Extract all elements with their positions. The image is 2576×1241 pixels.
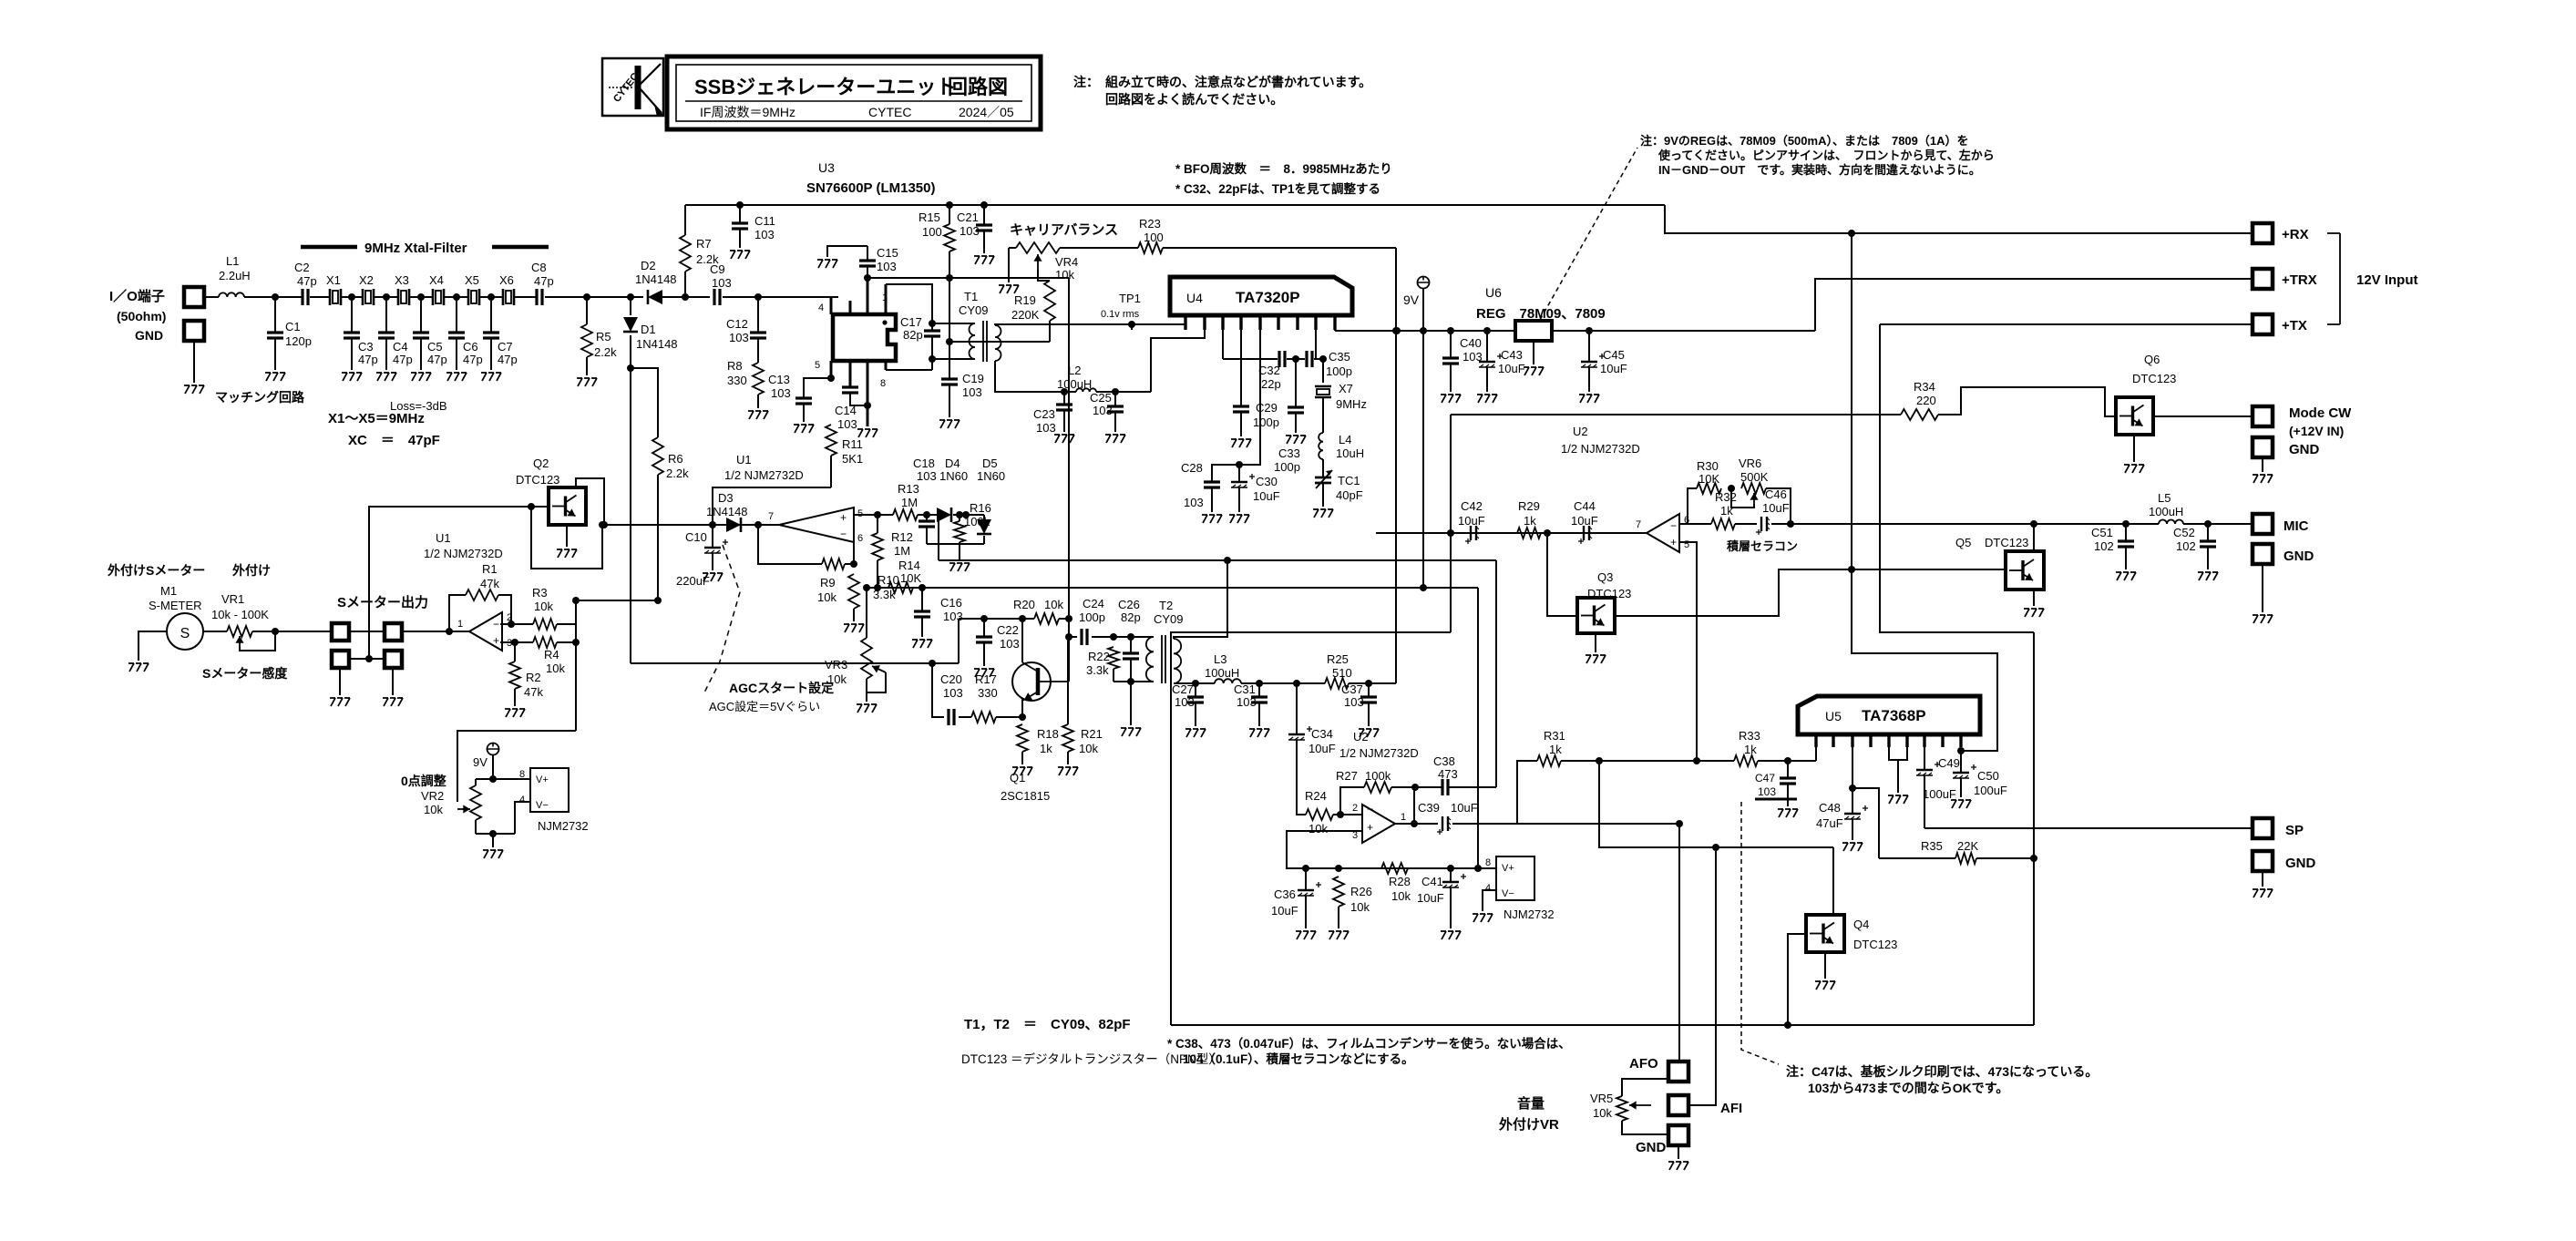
wire TX net down bbox=[2033, 632, 2035, 1025]
svg-text:100uF: 100uF bbox=[1923, 787, 1956, 801]
svg-text:100: 100 bbox=[922, 225, 942, 239]
svg-text:10k: 10k bbox=[546, 662, 565, 675]
wire AFO feed bbox=[1678, 824, 1680, 1062]
svg-text:C11: C11 bbox=[754, 214, 775, 228]
svg-text:47p: 47p bbox=[393, 353, 413, 366]
wire bus step to +RX bbox=[1665, 205, 2253, 237]
svg-text:DTC123: DTC123 bbox=[2132, 372, 2176, 385]
svg-text:マッチング回路: マッチング回路 bbox=[215, 390, 305, 405]
svg-text:8: 8 bbox=[1485, 857, 1491, 868]
ground C37 bbox=[1359, 729, 1379, 737]
ground VR3 bbox=[857, 704, 877, 713]
ground C10 bbox=[703, 573, 723, 581]
svg-text:103: 103 bbox=[1093, 404, 1113, 417]
IC U3 SN76600P bbox=[833, 314, 896, 361]
svg-text:U5: U5 bbox=[1825, 709, 1842, 723]
ground R5 bbox=[577, 378, 597, 386]
label U1 smeter bbox=[424, 531, 503, 560]
wire Q3 emitter bbox=[1595, 633, 1596, 652]
svg-text:TA7320P: TA7320P bbox=[1236, 289, 1300, 306]
ground R10 bbox=[844, 624, 864, 632]
terminal Mode CW bbox=[2253, 405, 2352, 438]
svg-text:C25: C25 bbox=[1090, 391, 1112, 405]
U3 pin labels bbox=[815, 292, 888, 389]
svg-text:103: 103 bbox=[943, 686, 963, 700]
svg-text:10k: 10k bbox=[1391, 889, 1411, 903]
wire y728 line bbox=[631, 660, 959, 667]
diode D5 bbox=[977, 456, 1005, 544]
svg-text:103: 103 bbox=[771, 386, 791, 400]
ground I/O bbox=[184, 385, 204, 394]
wire TP1 line bbox=[1131, 324, 1133, 330]
svg-text:R19: R19 bbox=[1014, 293, 1036, 307]
wire Q6 emitter bbox=[2133, 435, 2135, 462]
wire Q5 emitter bbox=[2033, 590, 2035, 606]
svg-text:2.2k: 2.2k bbox=[594, 345, 617, 359]
svg-text:10uF: 10uF bbox=[1762, 501, 1790, 515]
capacitor C12 bbox=[726, 297, 766, 363]
trimmer TC1 bbox=[1315, 459, 1363, 507]
svg-text:R21: R21 bbox=[1081, 727, 1103, 741]
wire Q2 base net bbox=[369, 503, 602, 659]
label zero adj bbox=[401, 774, 447, 816]
label U3 bbox=[806, 160, 935, 196]
inductor L3 bbox=[1205, 652, 1241, 683]
transistor Q1 2SC1815 bbox=[1012, 662, 1068, 701]
svg-text:103: 103 bbox=[837, 417, 857, 431]
svg-text:22K: 22K bbox=[1957, 839, 1978, 853]
wire Q1 base right bbox=[1067, 637, 1069, 724]
ground C47 bbox=[1778, 809, 1798, 817]
ground C5 bbox=[411, 373, 431, 381]
resistor R20 bbox=[1013, 598, 1069, 624]
svg-text:100p: 100p bbox=[1326, 364, 1352, 378]
capacitor C4 bbox=[378, 293, 413, 370]
svg-text:Sメーター出力: Sメーター出力 bbox=[337, 594, 428, 610]
wire T1 secondary tap bbox=[949, 341, 995, 343]
svg-text:100p: 100p bbox=[1274, 460, 1300, 474]
capacitor C6 bbox=[448, 293, 483, 370]
svg-text:V+: V+ bbox=[536, 774, 549, 785]
svg-text:L4: L4 bbox=[1339, 433, 1351, 446]
svg-text:R16: R16 bbox=[970, 501, 991, 515]
resistor R10 bbox=[848, 573, 899, 621]
note top bbox=[1073, 75, 1371, 107]
transistor Q6 DTC123 bbox=[2116, 397, 2153, 435]
ground C26 rail bbox=[1121, 728, 1141, 736]
svg-text:82p: 82p bbox=[903, 328, 923, 342]
ground C6 bbox=[446, 373, 467, 381]
ground C36 bbox=[1296, 931, 1316, 939]
opamp U1 smeter bbox=[457, 612, 512, 651]
label U5 bbox=[1825, 707, 1926, 724]
svg-text:D2: D2 bbox=[641, 259, 656, 272]
inductor L2 bbox=[1057, 364, 1096, 392]
svg-text:473: 473 bbox=[1438, 767, 1458, 781]
svg-text:10K: 10K bbox=[1699, 472, 1719, 486]
svg-text:I／O端子: I／O端子 bbox=[109, 288, 165, 304]
svg-text:1k: 1k bbox=[1744, 743, 1757, 756]
svg-text:C6: C6 bbox=[463, 340, 478, 354]
svg-text:47p: 47p bbox=[498, 353, 518, 366]
capacitor C51 bbox=[2091, 524, 2134, 569]
ground TC1 bbox=[1313, 509, 1333, 518]
svg-text:X1: X1 bbox=[326, 273, 341, 287]
svg-text:1N60: 1N60 bbox=[977, 469, 1005, 483]
resistor R4 bbox=[533, 637, 576, 675]
label U2 audio bbox=[1339, 730, 1419, 760]
svg-text:C47: C47 bbox=[1755, 772, 1775, 785]
resistor R17 bbox=[959, 672, 1022, 723]
ground C52 bbox=[2198, 572, 2218, 580]
wire AGC to smeter y659 bbox=[572, 597, 662, 604]
svg-text:C18: C18 bbox=[913, 456, 935, 470]
svg-text:Q6: Q6 bbox=[2144, 353, 2160, 366]
capacitor C24 bbox=[1069, 597, 1154, 645]
svg-text:4: 4 bbox=[818, 303, 824, 313]
label volume bbox=[1498, 1095, 1559, 1133]
svg-text:(50ohm): (50ohm) bbox=[117, 309, 166, 323]
wire x1592 vertical bbox=[1450, 415, 1452, 632]
svg-text:TA7368P: TA7368P bbox=[1862, 707, 1926, 724]
svg-text:注： 組み立て時の、注意点などが書かれています。: 注： 組み立て時の、注意点などが書かれています。 bbox=[1073, 75, 1371, 89]
svg-text:103: 103 bbox=[754, 228, 775, 241]
svg-text:GND: GND bbox=[2289, 442, 2320, 457]
ground Q6 bbox=[2124, 465, 2144, 473]
svg-text:Sメーター感度: Sメーター感度 bbox=[202, 666, 288, 681]
svg-text:10k: 10k bbox=[817, 590, 836, 604]
svg-text:* C32、22pFは、TP1を見て調整する: * C32、22pFは、TP1を見て調整する bbox=[1175, 181, 1380, 196]
wire bias rail y953 bbox=[1302, 865, 1496, 872]
svg-text:C50: C50 bbox=[1977, 769, 1999, 783]
svg-text:AFO: AFO bbox=[1629, 1056, 1658, 1072]
svg-text:T2: T2 bbox=[1159, 599, 1173, 612]
svg-text:47p: 47p bbox=[463, 353, 483, 366]
wire y679 corner bbox=[958, 619, 960, 663]
svg-text:C51: C51 bbox=[2091, 526, 2113, 539]
svg-text:10uF: 10uF bbox=[1600, 362, 1627, 375]
ground U5 pins56 bbox=[1888, 795, 1908, 804]
svg-text:47uF: 47uF bbox=[1816, 816, 1843, 830]
svg-text:MIC: MIC bbox=[2284, 518, 2309, 534]
svg-text:R34: R34 bbox=[1914, 380, 1935, 394]
svg-text:C49: C49 bbox=[1938, 756, 1960, 770]
wire pin2 line bbox=[500, 620, 533, 628]
capacitor C42 bbox=[1458, 499, 1485, 544]
resistor R33 bbox=[1734, 729, 1816, 766]
resistor R35 bbox=[1879, 839, 2037, 864]
title text bbox=[685, 76, 1022, 119]
capacitor C21 bbox=[957, 205, 992, 253]
wire U4 pin5 to C28 bbox=[1212, 315, 1260, 482]
ground VR4 bbox=[999, 285, 1019, 293]
wire main line left bbox=[204, 296, 219, 298]
capacitor C15 bbox=[859, 246, 898, 273]
svg-text:100uH: 100uH bbox=[2149, 505, 2183, 518]
svg-text:Mode CW: Mode CW bbox=[2289, 405, 2352, 421]
wire D2 to C9 bbox=[660, 293, 710, 301]
wire AFgnd bbox=[1678, 1145, 1679, 1159]
svg-text:2: 2 bbox=[1352, 803, 1358, 814]
wire top bus bbox=[685, 201, 1665, 209]
capacitor C19 bbox=[941, 372, 984, 417]
capacitor C17 bbox=[886, 284, 940, 370]
note BFO bbox=[1175, 161, 1392, 176]
diode D3 bbox=[706, 491, 748, 532]
svg-text:103から473までの間ならOKです。: 103から473までの間ならOKです。 bbox=[1808, 1081, 2008, 1095]
ground C31 bbox=[1249, 729, 1269, 737]
svg-text:10uF: 10uF bbox=[1253, 489, 1280, 503]
label Q1 bbox=[1001, 771, 1050, 803]
transformer T2 bbox=[1146, 599, 1184, 683]
svg-text:10k: 10k bbox=[534, 600, 553, 613]
svg-text:12V Input: 12V Input bbox=[2356, 272, 2418, 288]
capacitor C2 bbox=[294, 261, 317, 305]
svg-text:回路図をよく読んでください。: 回路図をよく読んでください。 bbox=[1105, 92, 1283, 107]
resistor R34 bbox=[1901, 380, 1938, 420]
svg-text:103: 103 bbox=[877, 260, 897, 273]
svg-text:−: − bbox=[1367, 803, 1373, 815]
svg-text:C26: C26 bbox=[1118, 598, 1140, 611]
label VR1 bbox=[211, 592, 269, 621]
ground C7 bbox=[481, 373, 501, 381]
terminal MIC GND bbox=[2253, 544, 2314, 564]
wire U4 pin8 to C35 bbox=[1316, 315, 1323, 359]
svg-text:U4: U4 bbox=[1186, 291, 1203, 305]
U5 pin stubs bbox=[1816, 734, 1961, 747]
svg-text:1k: 1k bbox=[1549, 743, 1562, 756]
svg-text:103: 103 bbox=[1175, 695, 1195, 709]
resistor R12 bbox=[872, 515, 913, 588]
svg-text:C27: C27 bbox=[1172, 682, 1194, 696]
svg-text:Q5: Q5 bbox=[1955, 536, 1971, 549]
wire pin3 line bbox=[500, 639, 533, 646]
potentiometer VR1 bbox=[203, 626, 275, 651]
ground C30 bbox=[1229, 515, 1249, 523]
svg-text:100p: 100p bbox=[1253, 415, 1279, 429]
svg-text:キャリアバランス: キャリアバランス bbox=[1010, 222, 1118, 238]
wire R13 jog to y615 bbox=[927, 515, 939, 560]
svg-text:C22: C22 bbox=[997, 623, 1019, 637]
svg-text:10uF: 10uF bbox=[1571, 514, 1598, 528]
capacitor C43 bbox=[1479, 331, 1525, 392]
regulator U6 box bbox=[1515, 321, 1552, 341]
svg-text:R13: R13 bbox=[898, 482, 919, 496]
svg-text:C40: C40 bbox=[1460, 336, 1482, 350]
svg-text:500K: 500K bbox=[1740, 470, 1769, 484]
svg-text:U6: U6 bbox=[1485, 285, 1502, 300]
logo box CYTEC bbox=[602, 58, 663, 117]
wire R19 to T1 tap bbox=[949, 341, 1050, 343]
wire R11 to AGC bbox=[713, 487, 831, 528]
svg-text:10K: 10K bbox=[900, 571, 921, 585]
label VR5 bbox=[1590, 1092, 1613, 1120]
svg-text:GND: GND bbox=[135, 328, 163, 343]
crystal X2 bbox=[359, 273, 374, 305]
ground Sout3 bbox=[330, 698, 350, 706]
capacitor C47 bbox=[1755, 761, 1797, 806]
wire U5 pin5 pin6 gnd bbox=[1889, 747, 1907, 793]
filter header bbox=[301, 241, 549, 256]
resistor R19 bbox=[1011, 270, 1055, 342]
svg-text:5: 5 bbox=[1684, 539, 1689, 550]
svg-text:C19: C19 bbox=[962, 372, 984, 385]
ground Q5 bbox=[2024, 609, 2044, 617]
ground C27 bbox=[1185, 729, 1206, 737]
wire to VR2 bbox=[457, 731, 576, 802]
label U2 top bbox=[1561, 425, 1640, 456]
label AGC start bbox=[729, 681, 834, 695]
svg-text:U2: U2 bbox=[1573, 425, 1588, 438]
svg-text:DTC123: DTC123 bbox=[1985, 536, 2028, 549]
label X1-X5 bbox=[328, 411, 425, 426]
capacitor C31 bbox=[1234, 682, 1267, 726]
svg-text:103: 103 bbox=[729, 331, 749, 344]
wire +TRX bbox=[1815, 279, 2253, 331]
crystal X1 bbox=[326, 273, 341, 305]
svg-text:10uF: 10uF bbox=[1309, 742, 1336, 755]
capacitor C40 bbox=[1442, 331, 1483, 392]
wire U4 pin4 to C29 bbox=[1240, 315, 1242, 406]
svg-text:R20: R20 bbox=[1013, 598, 1035, 611]
ground C4 bbox=[376, 373, 396, 381]
svg-text:C21: C21 bbox=[957, 210, 979, 224]
svg-text:R6: R6 bbox=[668, 452, 683, 466]
svg-text:103: 103 bbox=[1184, 496, 1204, 509]
wire opamp pin5 line bbox=[854, 511, 893, 518]
svg-text:X6: X6 bbox=[499, 273, 514, 287]
crystal X6 bbox=[499, 273, 514, 305]
svg-text:1/2 NJM2732D: 1/2 NJM2732D bbox=[724, 468, 804, 482]
wire supply to V+ bbox=[1477, 588, 1479, 868]
label matching bbox=[215, 390, 305, 405]
terminal Mode CW GND bbox=[2253, 437, 2320, 457]
svg-text:X5: X5 bbox=[465, 273, 479, 287]
resistor R3 bbox=[532, 586, 576, 630]
svg-text:AGCスタート設定: AGCスタート設定 bbox=[729, 681, 834, 695]
terminal Sout3 bbox=[332, 651, 349, 668]
svg-text:5: 5 bbox=[815, 360, 820, 371]
capacitor C7 bbox=[483, 293, 518, 370]
svg-text:220: 220 bbox=[1916, 394, 1936, 407]
svg-text:TC1: TC1 bbox=[1338, 474, 1360, 487]
svg-text:2.2uH: 2.2uH bbox=[219, 269, 251, 282]
svg-text:1N60: 1N60 bbox=[939, 469, 968, 483]
ground C21 bbox=[974, 256, 994, 264]
meter M1 bbox=[167, 613, 203, 650]
wire pin3 down bbox=[1287, 831, 1362, 868]
wire Q3 base bbox=[1547, 533, 1577, 616]
svg-text:AGC設定＝5Vぐらい: AGC設定＝5Vぐらい bbox=[709, 700, 820, 713]
svg-text:R35: R35 bbox=[1921, 839, 1943, 853]
wire R23 down bbox=[1392, 248, 1400, 683]
svg-text:R9: R9 bbox=[820, 576, 836, 590]
svg-text:C2: C2 bbox=[294, 261, 310, 274]
ground R21 bbox=[1058, 767, 1078, 775]
wire pin6 to R9 bbox=[853, 538, 855, 564]
label S meter out bbox=[337, 594, 428, 610]
IC U4 TA7320P bbox=[1170, 277, 1352, 315]
svg-text:C13: C13 bbox=[768, 373, 790, 386]
capacitor C34 bbox=[1288, 683, 1336, 815]
svg-text:103: 103 bbox=[960, 224, 980, 238]
resistor R27 bbox=[1336, 769, 1419, 815]
svg-text:10k: 10k bbox=[424, 803, 443, 816]
svg-text:R28: R28 bbox=[1389, 875, 1411, 888]
label NJM2732 audio bbox=[1504, 908, 1555, 921]
resistor R30 bbox=[1688, 459, 1721, 524]
svg-text:10k: 10k bbox=[1044, 598, 1063, 611]
svg-text:220K: 220K bbox=[1011, 308, 1040, 322]
svg-text:4: 4 bbox=[1485, 883, 1491, 894]
svg-text:GND: GND bbox=[2284, 549, 2314, 564]
svg-text:103: 103 bbox=[917, 469, 937, 483]
svg-text:2SC1815: 2SC1815 bbox=[1001, 789, 1050, 803]
svg-text:C46: C46 bbox=[1765, 487, 1787, 501]
svg-text:C41: C41 bbox=[1421, 875, 1443, 888]
svg-text:8: 8 bbox=[519, 769, 525, 780]
svg-text:C38: C38 bbox=[1433, 754, 1455, 768]
svg-text:R17: R17 bbox=[975, 672, 997, 686]
svg-text:C5: C5 bbox=[427, 340, 443, 354]
resistor R6 bbox=[631, 368, 689, 600]
terminal I/O bbox=[184, 287, 204, 307]
wire VR2 gnd bbox=[492, 834, 494, 847]
wire C39 up to R31 bbox=[1517, 761, 1537, 824]
wire U4 pin1 to T1 bbox=[1185, 315, 1186, 324]
wire filter chain bbox=[310, 296, 536, 298]
wire Sout4 gnd bbox=[392, 668, 394, 695]
capacitor C20 bbox=[932, 663, 963, 725]
wire BFO feed down bbox=[1065, 278, 1072, 682]
svg-text:510: 510 bbox=[1332, 666, 1352, 680]
ground R8 bbox=[748, 411, 768, 419]
capacitor C41 bbox=[1417, 868, 1466, 928]
svg-text:C29: C29 bbox=[1256, 401, 1278, 415]
svg-text:R4: R4 bbox=[544, 648, 559, 662]
wire supply y645 bbox=[863, 584, 1478, 591]
capacitor C18 bbox=[913, 456, 937, 544]
wire VR1 to terminals bbox=[252, 628, 332, 635]
svg-text:100k: 100k bbox=[964, 515, 990, 528]
ground C48 bbox=[1842, 843, 1863, 851]
svg-text:47p: 47p bbox=[297, 274, 317, 288]
ground Q4 bbox=[1815, 981, 1835, 990]
transformer T1 bbox=[932, 290, 1001, 362]
svg-text:1M: 1M bbox=[894, 544, 910, 558]
svg-text:10uF: 10uF bbox=[1417, 891, 1444, 905]
svg-text:D4: D4 bbox=[945, 456, 960, 470]
svg-text:V−: V− bbox=[536, 800, 549, 811]
svg-text:100p: 100p bbox=[1079, 610, 1105, 624]
wire 9V rail bbox=[1335, 327, 1515, 334]
wire 9V down to supply line bbox=[1422, 331, 1424, 588]
svg-text:C24: C24 bbox=[1083, 597, 1104, 610]
wire Q5 base bbox=[1848, 566, 2006, 573]
svg-text:L3: L3 bbox=[1214, 652, 1226, 666]
wire I/O gnd bbox=[193, 341, 195, 383]
wire +TX down bbox=[1880, 324, 2034, 632]
resistor R15 bbox=[919, 205, 955, 278]
svg-text:100k: 100k bbox=[1365, 769, 1391, 783]
wire Q4 base bbox=[1788, 934, 1806, 1025]
wire VR2 top bbox=[476, 775, 530, 783]
terminal +RX bbox=[2253, 223, 2309, 243]
title box outer bbox=[667, 56, 1041, 129]
terminal AFO bbox=[1629, 1056, 1688, 1082]
wire AF loop left bbox=[1171, 632, 1451, 1025]
wire AGC line bbox=[599, 521, 779, 528]
